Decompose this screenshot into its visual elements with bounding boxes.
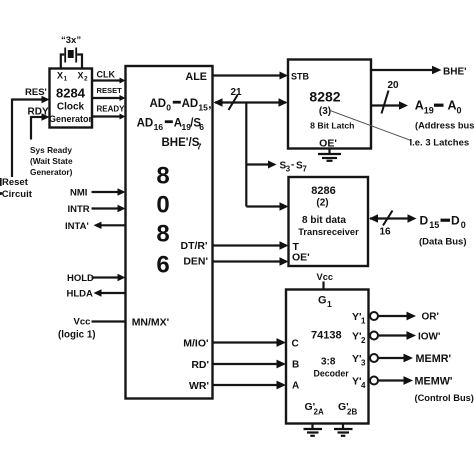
svg-text:2: 2: [84, 76, 88, 83]
svg-text:-: -: [291, 160, 294, 171]
bus width 21 slash: [229, 95, 238, 110]
svg-text:RESET: RESET: [97, 86, 123, 95]
svg-text:Generator: Generator: [49, 114, 93, 124]
svg-text:8: 8: [156, 163, 169, 190]
svg-text:Decoder: Decoder: [314, 369, 350, 379]
svg-text:7: 7: [303, 165, 307, 174]
ground at G'2A: [304, 424, 323, 436]
power Vcc to G1: [317, 272, 334, 290]
wire HLDA out: [67, 289, 126, 300]
wire RDY into 8284: [28, 107, 50, 121]
svg-text:MEMR': MEMR': [416, 353, 452, 365]
svg-text:X: X: [78, 71, 84, 81]
wire S3-S7 tap: [246, 160, 307, 174]
crystal X1 symbol: [64, 48, 77, 63]
svg-text:D: D: [451, 214, 460, 228]
svg-text:Generator): Generator): [30, 167, 73, 177]
svg-text:Sys Ready: Sys Ready: [30, 145, 72, 155]
svg-text:(logic 1): (logic 1): [58, 330, 96, 341]
svg-text:AD: AD: [150, 98, 167, 110]
svg-text:IOW': IOW': [418, 332, 440, 343]
svg-text:(Data Bus): (Data Bus): [419, 237, 467, 248]
svg-text:A: A: [292, 381, 299, 392]
svg-text:Vcc: Vcc: [317, 272, 334, 282]
IC 74138 decoder: [286, 290, 369, 424]
wire CLK (8284 to 8086): [92, 70, 126, 84]
svg-text:BHE'/S: BHE'/S: [162, 137, 200, 149]
output Y'1 bubble and wire to OR': [370, 312, 439, 323]
wire WR' to A: [213, 381, 287, 390]
wire reset circuit vertical: [11, 99, 13, 178]
svg-text:7: 7: [197, 142, 202, 152]
wire D15-D0 data bus (16 lines): [369, 211, 417, 238]
svg-text:0: 0: [166, 103, 171, 113]
IC 8286 transceiver: [289, 177, 369, 266]
crystal X1 "3x" label: [61, 35, 81, 46]
wire DEN' to OE': [213, 257, 289, 265]
output Y'3 bubble and wire to MEMR': [370, 353, 451, 365]
svg-text:(3): (3): [319, 106, 331, 117]
svg-text:X: X: [57, 71, 63, 81]
svg-text:2A: 2A: [314, 408, 324, 417]
svg-text:16: 16: [154, 122, 164, 132]
svg-text:ALE: ALE: [185, 71, 207, 83]
svg-text:1: 1: [361, 317, 366, 326]
wire INTA' out: [65, 221, 126, 232]
svg-text:16: 16: [380, 227, 392, 238]
svg-text:6: 6: [199, 122, 204, 132]
wire M/IO' to C: [213, 338, 287, 347]
svg-text:0: 0: [156, 192, 169, 219]
svg-text:(Wait State: (Wait State: [30, 156, 73, 166]
svg-text:WR': WR': [189, 380, 209, 392]
svg-text:2B: 2B: [347, 408, 357, 417]
svg-text:AD: AD: [182, 98, 199, 110]
svg-text:“3x”: “3x”: [61, 35, 81, 46]
svg-text:8286: 8286: [311, 185, 335, 197]
svg-text:3: 3: [361, 359, 366, 368]
wire AD bus vertical branch: [245, 103, 247, 207]
svg-text:Circuit: Circuit: [2, 189, 33, 200]
svg-text:21: 21: [231, 87, 243, 98]
svg-text:MEMW': MEMW': [415, 376, 453, 388]
svg-text:I.e. 3 Latches: I.e. 3 Latches: [410, 138, 470, 149]
wire AD bus 8086 to 8282 (21 lines): [214, 87, 288, 110]
svg-text:74138: 74138: [311, 330, 342, 342]
wire READY (8284 to 8086): [92, 105, 126, 120]
svg-text:15: 15: [429, 220, 439, 230]
svg-text:1: 1: [327, 299, 332, 309]
svg-text:DEN': DEN': [183, 256, 208, 268]
svg-text:8: 8: [156, 221, 169, 248]
svg-text:MN/MX': MN/MX': [132, 317, 170, 329]
svg-text:15: 15: [198, 103, 208, 113]
svg-text:Transreceiver: Transreceiver: [298, 227, 359, 237]
svg-text:BHE': BHE': [443, 67, 467, 78]
wire HOLD: [67, 273, 126, 284]
svg-text:(Control Bus): (Control Bus): [415, 393, 474, 403]
svg-text:STB: STB: [291, 72, 310, 82]
IC 8086 microprocessor: [126, 66, 213, 399]
svg-text:CLK: CLK: [97, 70, 116, 80]
wire RES' into 8284: [12, 87, 50, 103]
wire RDY vertical to wait state generator: [30, 116, 32, 140]
node Reset Circuit: [0, 177, 33, 200]
svg-text:3:8: 3:8: [321, 357, 336, 368]
svg-text:0: 0: [461, 220, 466, 230]
svg-text:8284: 8284: [56, 86, 86, 101]
svg-text:8 bit data: 8 bit data: [302, 215, 346, 226]
svg-text:4: 4: [361, 381, 366, 390]
svg-text:Reset: Reset: [2, 177, 29, 188]
svg-text:NMI: NMI: [70, 188, 87, 199]
ground at 8282 OE': [318, 149, 341, 161]
wire NMI: [70, 188, 126, 199]
svg-text:D: D: [420, 214, 429, 228]
svg-text:INTA': INTA': [65, 221, 89, 232]
output Y'4 bubble and wire to MEMW': [370, 376, 453, 388]
svg-text:G: G: [318, 295, 327, 307]
net label A19-A0 (Address bus): [415, 99, 474, 131]
svg-text:19: 19: [424, 106, 434, 116]
svg-text:B: B: [292, 360, 299, 371]
node Vcc (logic 1) to MN/MX': [58, 317, 126, 341]
svg-text:RD': RD': [191, 359, 209, 371]
svg-text:8282: 8282: [309, 89, 340, 105]
svg-text:INTR: INTR: [68, 204, 90, 215]
svg-text:(Address bus): (Address bus): [415, 121, 474, 131]
svg-text:2: 2: [361, 336, 366, 345]
svg-text:AD: AD: [137, 118, 154, 130]
wire DT/R' to T: [213, 241, 289, 249]
wire AD bus into 8286: [246, 202, 288, 210]
svg-text:OR': OR': [422, 312, 439, 323]
ground at G'2B: [334, 424, 353, 436]
wire A19-A0 address bus out (20 lines): [371, 80, 408, 114]
wire INTR: [68, 204, 126, 215]
svg-text:RES': RES': [25, 87, 47, 98]
wire crystal right leg to X2 pin: [77, 55, 82, 69]
IC 8284 clock generator: [49, 69, 93, 128]
svg-text:(2): (2): [316, 198, 328, 209]
svg-text:READY: READY: [97, 105, 126, 114]
svg-text:0: 0: [457, 106, 462, 116]
svg-text:A: A: [415, 99, 424, 113]
svg-text:RDY: RDY: [28, 107, 49, 118]
svg-text:Clock: Clock: [57, 102, 85, 113]
svg-text:1: 1: [64, 76, 68, 83]
svg-text:OE': OE': [319, 138, 337, 150]
svg-text:Vcc: Vcc: [74, 317, 91, 328]
wire ALE to STB: [213, 72, 289, 80]
svg-text:C: C: [292, 339, 299, 350]
wire RESET (8284 to 8086): [92, 86, 126, 101]
wire BHE' out of 8282: [371, 66, 467, 78]
svg-text:8 Bit Latch: 8 Bit Latch: [310, 121, 354, 131]
svg-text:M/IO': M/IO': [183, 338, 208, 350]
output Y'2 bubble and wire to IOW': [370, 331, 440, 342]
IC 8282 latch: [288, 60, 371, 150]
svg-text:DT/R': DT/R': [181, 240, 208, 252]
svg-text:HLDA: HLDA: [67, 289, 94, 300]
svg-text:OE': OE': [292, 252, 310, 264]
annotation i.e. 3 Latches: [330, 111, 469, 149]
wire crystal left leg to X1 pin: [61, 55, 65, 69]
svg-text:,: ,: [208, 99, 211, 111]
svg-text:HOLD: HOLD: [67, 273, 94, 284]
svg-text:6: 6: [156, 252, 169, 279]
svg-text:A: A: [448, 99, 457, 113]
svg-text:20: 20: [388, 80, 400, 91]
wire RD' to B: [213, 360, 287, 369]
net label D15-D0 (Data Bus): [419, 214, 467, 248]
node Sys Ready (Wait State Generator): [30, 145, 73, 177]
